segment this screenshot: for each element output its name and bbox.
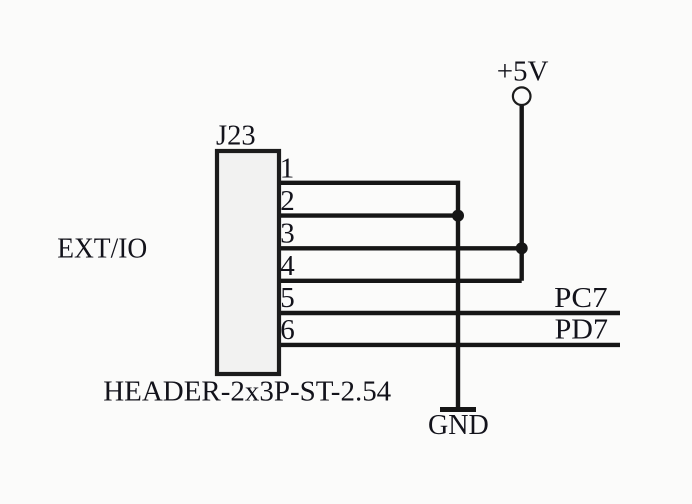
svg-text:4: 4	[280, 250, 295, 282]
svg-text:2: 2	[280, 185, 295, 217]
svg-text:J23: J23	[216, 120, 256, 152]
svg-text:PD7: PD7	[555, 313, 608, 345]
junction dot pin2/GND net	[452, 210, 464, 222]
wire pin4 to +5V net	[281, 279, 522, 283]
wire +5V vertical	[520, 106, 524, 281]
svg-text:1: 1	[280, 152, 295, 184]
junction dot pin3/+5V net	[516, 242, 528, 254]
svg-text:EXT/IO: EXT/IO	[57, 233, 147, 265]
svg-text:6: 6	[280, 314, 295, 346]
wire pin6 net PD7	[281, 343, 620, 347]
wire pin5 net PC7	[281, 311, 620, 315]
+5V power symbol circle	[513, 87, 531, 105]
svg-text:GND: GND	[428, 409, 489, 441]
connector J23 body	[217, 151, 279, 374]
wire pin3 to +5V junction	[281, 246, 522, 250]
wire pin1 to GND net (right then down)	[281, 183, 458, 407]
svg-text:HEADER-2x3P-ST-2.54: HEADER-2x3P-ST-2.54	[103, 376, 391, 408]
wire pin2 to junction	[281, 213, 458, 217]
svg-text:PC7: PC7	[554, 282, 607, 314]
svg-text:+5V: +5V	[497, 55, 549, 87]
svg-text:3: 3	[280, 218, 295, 250]
svg-text:5: 5	[280, 282, 295, 314]
ground symbol bar	[440, 407, 476, 412]
